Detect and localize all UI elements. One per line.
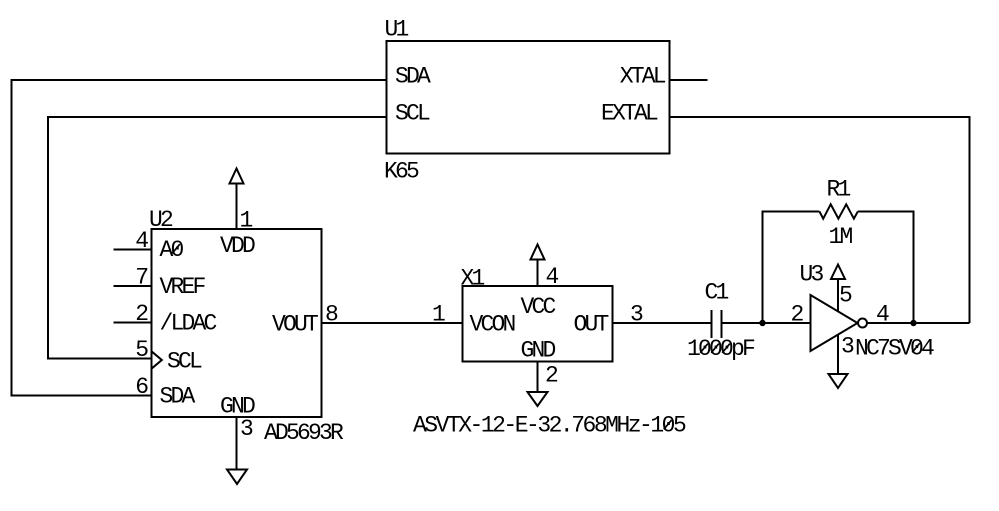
wire net VOUT (U2.VOUT pin 8 to X1.VCON pin 1): [322, 322, 463, 324]
IC X1 body: [463, 286, 613, 362]
wire C1 to node A: [722, 322, 763, 324]
wire U3 input (node A to U3): [763, 322, 811, 324]
slashed-zero tick (NC7SV04): [912, 343, 920, 352]
svg-text:5: 5: [839, 283, 852, 309]
svg-text:VCC: VCC: [521, 294, 556, 320]
wire U3 pin 3 GND: [837, 335, 839, 374]
wire U3 pin 5 VCC: [837, 279, 839, 312]
wire X1 pin 4 VCC: [537, 260, 539, 287]
junction node A (C1 / R1 / U3 input): [759, 320, 765, 326]
ground symbol (X1): [528, 392, 548, 406]
power arrow VCC (X1): [531, 245, 545, 260]
wire feedback right riser (R1 down to node B): [858, 212, 914, 324]
wire net SDA (U1.SDA to U2.SDA pin 6): [12, 80, 387, 396]
wire net SCL (U1.SCL to U2.SCL pin 5): [48, 117, 387, 359]
capacitor C1 plates: [711, 310, 713, 338]
wire U2 pin 1 VDD: [236, 184, 238, 230]
wire feedback left riser (node A up to R1): [763, 212, 820, 324]
svg-text:3: 3: [240, 416, 253, 442]
svg-text:SDA: SDA: [160, 384, 196, 410]
power arrow VDD (U2): [230, 169, 244, 184]
resistor R1 zigzag: [820, 204, 858, 218]
svg-text:1000pF: 1000pF: [687, 336, 755, 362]
svg-text:ASVTX-12-E-32.768MHz-105: ASVTX-12-E-32.768MHz-105: [413, 413, 686, 439]
ground symbol (U2): [227, 470, 247, 485]
wire U2 pin 3 GND: [236, 417, 238, 470]
power arrow VCC (U3): [831, 265, 845, 280]
svg-text:NC7SV04: NC7SV04: [855, 336, 934, 362]
svg-text:XTAL: XTAL: [620, 64, 666, 90]
svg-text:SDA: SDA: [395, 64, 431, 90]
clock wedge on U2 SCL pin: [152, 351, 162, 368]
svg-text:EXTAL: EXTAL: [601, 101, 658, 127]
svg-text:OUT: OUT: [574, 312, 609, 338]
slashed-zero tick (A0): [172, 244, 180, 253]
svg-text:U2: U2: [149, 207, 173, 233]
svg-text:A0: A0: [160, 237, 184, 263]
wire U2 pin 7 VREF stub: [114, 285, 152, 287]
svg-text:U3: U3: [800, 262, 824, 288]
svg-text:1M: 1M: [829, 224, 853, 250]
svg-text:GND: GND: [521, 338, 556, 364]
wire X1 pin 2 GND: [537, 362, 539, 393]
svg-text:R1: R1: [827, 177, 851, 203]
junction node B (R1 / U3 output / EXTAL): [910, 320, 916, 326]
svg-text:2: 2: [545, 363, 558, 389]
wire U2 pin 4 A0 stub: [114, 249, 152, 251]
svg-text:K65: K65: [384, 159, 419, 185]
IC U2 body: [152, 229, 322, 417]
wire X1.OUT pin 3 to C1: [613, 322, 712, 324]
svg-text:VOUT: VOUT: [272, 312, 318, 338]
svg-text:7: 7: [135, 265, 147, 291]
wire net EXTAL (U1.EXTAL to U3 output): [670, 117, 970, 323]
svg-text:SCL: SCL: [395, 101, 430, 127]
wire U3 output (pin 4 to node B and EXTAL riser): [867, 322, 970, 324]
svg-text:X1: X1: [461, 266, 485, 292]
slashed-zero tick (ASVTX-12-E-32.768MHz-105): [664, 420, 672, 429]
IC U1 body: [387, 41, 670, 154]
inverter U3 triangle: [811, 295, 858, 351]
svg-text:U1: U1: [385, 17, 409, 43]
svg-text:SCL: SCL: [167, 349, 202, 375]
svg-text:VREF: VREF: [160, 274, 206, 300]
wire XTAL stub: [670, 79, 708, 81]
slashed-zero ticks (1000pF): [700, 344, 708, 353]
svg-text:/LDAC: /LDAC: [160, 311, 217, 337]
svg-text:C1: C1: [705, 280, 729, 306]
inverter U3 output bubble: [858, 319, 867, 328]
svg-text:3: 3: [841, 334, 854, 360]
svg-text:VCON: VCON: [470, 312, 515, 338]
svg-text:AD5693R: AD5693R: [264, 420, 344, 446]
wire U2 pin 2 /LDAC stub: [114, 322, 152, 324]
ground symbol (U3): [829, 374, 848, 388]
svg-text:VDD: VDD: [220, 233, 255, 259]
